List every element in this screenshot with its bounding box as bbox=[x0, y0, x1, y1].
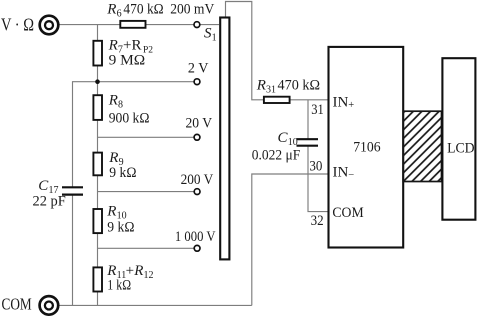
svg-text:R: R bbox=[106, 2, 116, 18]
resistor R6 bbox=[120, 21, 145, 28]
svg-text:IN: IN bbox=[333, 165, 349, 181]
svg-text:900 kΩ: 900 kΩ bbox=[109, 111, 150, 127]
switch contact 1000V bbox=[194, 245, 200, 251]
wire divider chain vertical bbox=[97, 25, 99, 306]
svg-text:9 kΩ: 9 kΩ bbox=[109, 165, 136, 181]
svg-text:R: R bbox=[133, 263, 143, 279]
IC U1 7106 body bbox=[329, 47, 404, 248]
resistor R9 bbox=[93, 153, 102, 176]
resistor R31 bbox=[264, 97, 290, 103]
display LCD body bbox=[442, 58, 475, 220]
svg-text:1 000 V: 1 000 V bbox=[175, 229, 216, 245]
wire top rail from V ohm terminal to switch bar bbox=[59, 24, 219, 26]
switch S1 selector bar bbox=[220, 18, 229, 260]
svg-text:200 V: 200 V bbox=[181, 172, 214, 188]
svg-text:V · Ω: V · Ω bbox=[1, 15, 34, 35]
svg-text:10: 10 bbox=[288, 137, 298, 148]
node junction dot divider 2V tap bbox=[95, 79, 100, 84]
svg-text:R: R bbox=[106, 204, 116, 220]
capacitor C17 bbox=[62, 187, 83, 194]
svg-text:1 kΩ: 1 kΩ bbox=[107, 278, 131, 294]
svg-text:−: − bbox=[348, 170, 354, 181]
label pin IN+ bbox=[333, 95, 355, 111]
wire C10 lower lead to pin 32 bbox=[308, 146, 328, 212]
resistor R10 bbox=[93, 209, 102, 233]
svg-text:R: R bbox=[108, 92, 118, 108]
svg-text:470 kΩ: 470 kΩ bbox=[123, 2, 163, 18]
svg-text:COM: COM bbox=[2, 294, 32, 313]
resistor R8 bbox=[93, 95, 102, 120]
label resistor R6 value bbox=[106, 2, 163, 20]
svg-text:20 V: 20 V bbox=[186, 116, 213, 132]
label resistor R9 designator bbox=[108, 150, 123, 168]
svg-text:1: 1 bbox=[212, 33, 217, 44]
wire C17 branch upper bbox=[72, 81, 74, 187]
svg-text:200 mV: 200 mV bbox=[170, 2, 214, 18]
wire 20V tap bbox=[98, 136, 195, 138]
svg-text:470 kΩ: 470 kΩ bbox=[278, 78, 321, 94]
svg-text:+: + bbox=[348, 100, 354, 111]
svg-text:6: 6 bbox=[117, 9, 122, 20]
label capacitor C10 designator bbox=[278, 130, 298, 148]
svg-text:32: 32 bbox=[311, 213, 324, 229]
svg-text:31: 31 bbox=[311, 102, 324, 118]
label resistor R11+R12 designator bbox=[106, 263, 153, 281]
capacitor C10 bbox=[297, 139, 319, 146]
wire 200V tap bbox=[98, 191, 195, 193]
switch contact 2V bbox=[194, 79, 200, 85]
wire 1000V tap bbox=[98, 247, 195, 249]
svg-text:31: 31 bbox=[266, 85, 276, 96]
label resistor R8 designator bbox=[108, 92, 123, 110]
svg-text:IN: IN bbox=[333, 95, 349, 111]
svg-text:+R: +R bbox=[123, 38, 141, 54]
switch contact 20V bbox=[194, 134, 200, 140]
wire bottom rail from COM terminal bbox=[59, 304, 251, 306]
wire R31 to IN+ pin 31 bbox=[290, 99, 328, 101]
terminal V ohm bbox=[40, 16, 59, 35]
wire riser bottom rail to IN- pin 30 bbox=[252, 174, 328, 305]
resistor R7+RP2 bbox=[93, 41, 102, 66]
svg-text:R: R bbox=[108, 150, 118, 166]
switch contact 200V bbox=[194, 189, 200, 195]
svg-text:2 V: 2 V bbox=[188, 61, 209, 77]
svg-text:COM: COM bbox=[332, 205, 363, 221]
svg-text:9 MΩ: 9 MΩ bbox=[109, 53, 146, 69]
svg-text:R: R bbox=[256, 78, 266, 94]
svg-text:LCD: LCD bbox=[447, 140, 475, 156]
wire C10 upper lead bbox=[307, 100, 309, 139]
label resistor R31 value bbox=[256, 78, 320, 96]
svg-text:0.022 μF: 0.022 μF bbox=[252, 148, 300, 164]
wire 2V tap bbox=[73, 81, 195, 83]
svg-text:9 kΩ: 9 kΩ bbox=[107, 220, 134, 236]
wire switch wiper to R31 bbox=[226, 2, 264, 100]
svg-text:8: 8 bbox=[118, 99, 123, 110]
svg-text:R: R bbox=[108, 38, 118, 54]
terminal COM bbox=[40, 296, 59, 315]
wire C17 branch lower bbox=[72, 195, 74, 306]
label capacitor C17 designator bbox=[38, 178, 58, 196]
svg-text:7106: 7106 bbox=[353, 139, 381, 155]
switch contact 200mV bbox=[194, 22, 200, 28]
svg-text:12: 12 bbox=[144, 270, 154, 281]
resistor R11+R12 bbox=[93, 267, 102, 291]
label resistor R7+RP2 designator bbox=[108, 38, 154, 56]
svg-text:30: 30 bbox=[309, 159, 322, 175]
label switch S1 bbox=[204, 26, 217, 44]
svg-text:22 pF: 22 pF bbox=[33, 194, 66, 210]
label pin IN- bbox=[333, 165, 355, 181]
label resistor R10 designator bbox=[106, 204, 126, 222]
connector ribbon hatched block bbox=[403, 111, 441, 181]
